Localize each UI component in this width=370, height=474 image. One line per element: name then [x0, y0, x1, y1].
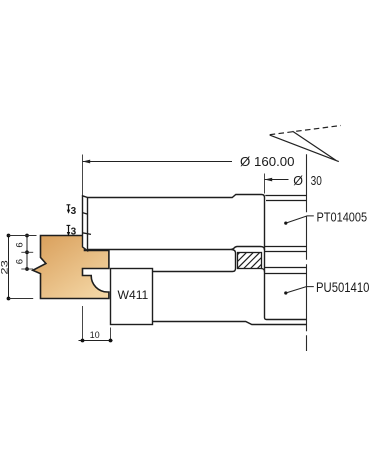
bottom body bottom edge and hub bottom [153, 322, 307, 325]
dimension 10 extension lines [82, 306, 84, 341]
top cutter body outline [88, 195, 307, 320]
wood profile W411 [33, 236, 109, 299]
bottom body lip top fillet [262, 269, 265, 272]
dimension 3 lower arrow [67, 224, 71, 226]
dimension Ø30 line [265, 179, 289, 181]
rotation direction arrow [270, 131, 339, 161]
svg-text:10: 10 [90, 330, 100, 341]
spacer section hatched block [238, 253, 262, 269]
svg-text:3: 3 [71, 227, 77, 238]
svg-text:Ø: Ø [293, 174, 303, 188]
knife step tick 2 [83, 233, 92, 235]
knife edge sliver [83, 196, 88, 251]
extension ticks [9, 235, 37, 237]
rotation direction dashed trajectory [270, 126, 341, 135]
dimension Ø30 arrowhead [265, 178, 273, 182]
svg-text:6: 6 [14, 242, 25, 247]
svg-text:30: 30 [311, 174, 322, 188]
hub lines through bore [265, 195, 306, 197]
dimension Ø160 extension line [82, 155, 84, 196]
svg-text:Ø 160.00: Ø 160.00 [240, 154, 295, 169]
hatch lines [238, 253, 262, 269]
centerline [306, 154, 308, 351]
dimension Ø160 arrowhead [83, 160, 91, 164]
leader PU501410 [284, 291, 287, 294]
top body bottom edge with recess [88, 247, 265, 251]
dimension Ø30 extension line [264, 174, 266, 194]
svg-text:W411: W411 [118, 288, 149, 302]
svg-text:23: 23 [0, 260, 10, 274]
dimension Ø160 line [83, 161, 233, 163]
dimension 6+6 line [26, 236, 28, 270]
svg-text:6: 6 [14, 259, 25, 264]
dimension 23 line [8, 236, 10, 299]
dimension 10 line [79, 340, 113, 342]
label box W411 [111, 269, 153, 325]
svg-text:3: 3 [71, 206, 77, 217]
svg-text:PT014005: PT014005 [317, 209, 368, 224]
svg-text:PU501410: PU501410 [316, 280, 369, 295]
dimension 3 upper arrow [67, 204, 71, 206]
knife slot between bodies [153, 250, 236, 272]
knife step tick 1 [83, 213, 88, 215]
leader PT014005 [284, 222, 287, 225]
